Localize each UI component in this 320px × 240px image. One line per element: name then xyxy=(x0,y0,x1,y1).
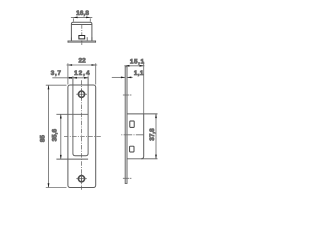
box bottom edge + extension xyxy=(127,158,158,160)
svg-text:37,8: 37,8 xyxy=(149,128,156,141)
dim line 35,6 xyxy=(60,114,62,159)
lower tab xyxy=(130,146,134,152)
arrow 85 top xyxy=(48,85,50,89)
box centre line xyxy=(81,25,83,36)
svg-text:12,4: 12,4 xyxy=(74,70,90,77)
extension tick right xyxy=(89,18,91,21)
arrow 12,4 left xyxy=(73,77,77,79)
extension line 22 right xyxy=(95,63,97,84)
dim text 15,1 xyxy=(130,58,145,65)
svg-text:1,1: 1,1 xyxy=(134,70,144,77)
dim line 15,1 xyxy=(124,65,144,67)
small tick right of latch hole xyxy=(86,37,88,41)
dim line 1,1 right part xyxy=(127,76,133,78)
arrow 16,8 left xyxy=(73,17,77,19)
latch hole (small rectangle) xyxy=(79,36,85,39)
dim line 3,7 / 12,4 xyxy=(52,77,88,79)
box right edge xyxy=(141,114,144,159)
top screw hole xyxy=(78,91,84,97)
bottom hole vertical tick xyxy=(81,174,83,183)
svg-text:35,6: 35,6 xyxy=(51,129,58,142)
top hole cross tick xyxy=(76,93,87,95)
arrow 3,7 right xyxy=(69,77,73,79)
arrow 1,1 left xyxy=(121,77,125,79)
dim text 85 (rotated) xyxy=(40,135,47,143)
strike plate outline xyxy=(68,85,96,188)
box side foot right xyxy=(91,37,93,40)
arrow 16,8 right xyxy=(86,17,90,19)
channel line left xyxy=(72,76,74,153)
face plate edge-on: top line xyxy=(68,40,96,42)
vertical centre line of plate xyxy=(80,80,82,190)
dim text 22 xyxy=(79,58,87,65)
box seam line xyxy=(71,24,92,26)
svg-text:16,8: 16,8 xyxy=(76,10,89,17)
lower hole tick dash xyxy=(130,177,132,179)
extension tick left xyxy=(72,18,74,21)
dim line 85 xyxy=(48,85,50,187)
centre tick on plate xyxy=(81,40,83,42)
dim text 3,7 xyxy=(51,70,62,77)
dim text 12,4 xyxy=(74,70,90,77)
svg-text:22: 22 xyxy=(79,58,87,65)
arrow 22 right xyxy=(92,64,96,66)
face plate edge-on: bottom line xyxy=(68,41,96,43)
arrow 3,7 left xyxy=(68,77,72,79)
arrow 15,1 right xyxy=(140,65,144,67)
plate left end cap xyxy=(67,41,69,43)
box bottom hidden edge + extension xyxy=(56,158,88,160)
upper hole tick xyxy=(123,94,129,96)
horizontal centre line of pocket xyxy=(64,136,101,138)
face plate (side) right face xyxy=(126,67,128,184)
svg-text:3,7: 3,7 xyxy=(51,70,62,77)
arrow 12,4 right xyxy=(84,77,88,79)
dim text 16,8 xyxy=(76,10,89,17)
box top edge + extension xyxy=(127,113,158,115)
dim text 1,1 xyxy=(134,70,144,77)
dim text 35,6 (rotated) xyxy=(51,129,58,142)
box side foot left xyxy=(70,37,72,40)
dim text 37,8 (rotated) xyxy=(149,128,156,141)
pocket top edge + extension xyxy=(56,113,88,115)
extension line 15,1 right xyxy=(143,62,145,114)
arrow 37,8 top xyxy=(155,114,157,118)
dim line 1,1 left part xyxy=(112,76,125,78)
lower hole tick xyxy=(123,177,129,179)
box centre line xyxy=(121,134,143,136)
dim line 37,8 xyxy=(155,114,157,159)
bottom hole cross tick xyxy=(76,178,87,180)
arrow 22 left xyxy=(68,64,72,66)
plate right end cap xyxy=(95,41,97,43)
dim line 16,8 xyxy=(71,16,92,18)
plate bottom cap xyxy=(125,182,127,184)
arrow 85 bottom xyxy=(48,183,50,187)
upper hole tick dash xyxy=(130,94,132,96)
face plate (side) top cap xyxy=(125,66,127,68)
face plate (side) left face xyxy=(124,67,126,184)
svg-text:15,1: 15,1 xyxy=(130,58,145,65)
upper tab xyxy=(130,121,134,127)
arrow 35,6 bottom xyxy=(60,155,62,159)
extension line 85 top xyxy=(46,84,67,86)
arrow 35,6 top xyxy=(60,114,62,118)
dim line 22 xyxy=(67,64,98,66)
arrow 1,1 right xyxy=(127,77,131,79)
channel line right xyxy=(87,76,89,153)
pocket bottom edge (rounded) xyxy=(73,154,88,156)
dust box outline (top view) xyxy=(71,22,92,41)
svg-text:85: 85 xyxy=(40,135,47,143)
top hole vertical tick xyxy=(81,89,83,99)
extension line 22 left xyxy=(67,63,69,84)
arrow 37,8 bottom xyxy=(155,155,157,159)
bottom screw hole xyxy=(78,176,84,182)
arrow 15,1 left xyxy=(125,65,129,67)
centre line below plate xyxy=(81,43,83,45)
extension line 85 bottom xyxy=(46,187,67,189)
